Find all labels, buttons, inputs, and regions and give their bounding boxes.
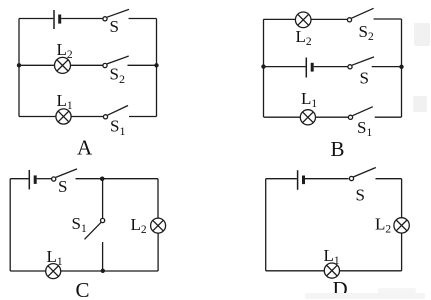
wire: B bottom branch left segment (264, 116, 301, 118)
wire: D top wire middle segment (305, 178, 349, 180)
svg-text:S: S (356, 186, 365, 205)
wire: B top branch middle segment (311, 18, 347, 20)
svg-text:L1: L1 (47, 247, 63, 268)
battery (cell) in A top branch (54, 10, 60, 29)
wire: C right rail lower segment (157, 233, 159, 271)
wire: B top branch left segment (264, 18, 296, 20)
wire: B middle branch right segment (372, 66, 402, 68)
svg-text:S2: S2 (359, 22, 374, 43)
wire: C bottom wire left segment (10, 270, 46, 272)
wire: A bottom branch right segment (129, 116, 157, 118)
faint watermark smudges (decorative) (305, 23, 430, 299)
wire: C top wire left segment (10, 178, 28, 180)
svg-text:C: C (76, 278, 90, 300)
wire: D bottom wire left segment (266, 270, 325, 272)
switch S1 (C middle branch, open vertical) (85, 218, 105, 239)
junction node (B right, middle branch) (399, 65, 403, 69)
wire: B left rail (263, 19, 265, 117)
wire: A top branch left segment (19, 18, 53, 20)
wire: C top wire middle segment (37, 178, 52, 180)
switch S (B middle branch) (348, 57, 374, 69)
wire: A bottom branch middle segment (71, 116, 103, 118)
lamp L1 (C bottom wire) (46, 264, 61, 279)
wire: D top wire left segment (266, 178, 297, 180)
svg-text:S: S (360, 69, 369, 88)
lamp L2 (C right branch) (151, 218, 166, 233)
wire: D bottom wire right segment (339, 270, 401, 272)
switch S2 (B top branch) (347, 8, 373, 22)
wire: A middle branch left segment (19, 64, 55, 66)
svg-text:L2: L2 (57, 40, 73, 61)
switch S (A top branch) (103, 9, 129, 21)
lamp L1 (D bottom wire) (324, 263, 339, 278)
battery (cell) in D top wire (298, 170, 304, 190)
junction node (A left, middle branch) (17, 63, 21, 67)
svg-text:L1: L1 (57, 91, 73, 112)
svg-text:L2: L2 (375, 215, 391, 236)
wire: A bottom branch left segment (19, 116, 56, 118)
wire: D right rail upper segment (401, 179, 403, 218)
wire: A right rail (156, 19, 158, 117)
lamp L2 (D right rail) (394, 218, 409, 233)
svg-text:L1: L1 (301, 89, 317, 110)
battery (cell) in B middle branch (306, 58, 312, 78)
wire: A left rail (18, 19, 20, 117)
wire: B right rail (401, 19, 403, 117)
svg-text:L2: L2 (296, 27, 312, 48)
svg-text:A: A (77, 136, 93, 160)
wire: A middle branch right segment (128, 64, 157, 66)
switch S1 (B bottom branch) (348, 107, 372, 120)
wire: C right rail upper segment (157, 179, 159, 219)
lamp L2 (B top branch) (295, 12, 311, 28)
svg-text:S: S (110, 17, 119, 36)
svg-text:L1: L1 (324, 246, 340, 267)
svg-text:L2: L2 (131, 215, 147, 236)
switch S1 (A bottom branch) (103, 106, 128, 119)
svg-text:B: B (331, 137, 345, 161)
wire: C middle branch lower vertical (102, 242, 104, 271)
svg-text:S1: S1 (110, 117, 125, 139)
svg-text:S1: S1 (357, 118, 372, 139)
lamp L1 (B bottom branch) (300, 110, 315, 125)
wire: C left rail (9, 179, 11, 271)
svg-text:S1: S1 (72, 214, 87, 235)
junction node (C bottom, middle branch tap) (101, 269, 105, 273)
wire: B bottom branch right segment (375, 116, 402, 118)
lamp L2 (A middle branch) (55, 57, 71, 73)
wire: B top branch right segment (374, 18, 402, 20)
wire: D right rail lower segment (401, 233, 403, 271)
wire: D top wire right segment (376, 178, 402, 180)
wire: C top wire right segment (76, 178, 159, 180)
switch S2 (A middle branch) (103, 56, 129, 68)
wire: D left rail (265, 179, 267, 271)
battery (cell) in C top wire (29, 170, 35, 189)
lamp L1 (A bottom branch) (56, 109, 71, 124)
wire: A top branch middle segment (61, 18, 103, 20)
switch S (D top wire) (349, 168, 375, 181)
wire: B middle branch left segment (264, 66, 306, 68)
junction node (B left, middle branch) (261, 64, 265, 68)
wire: B bottom branch middle segment (315, 116, 348, 118)
svg-text:S: S (58, 177, 67, 196)
wire: C bottom wire right segment (61, 270, 158, 272)
switch S (C top wire) (52, 169, 77, 181)
svg-text:S2: S2 (110, 65, 125, 87)
wire: B middle branch middle segment (314, 66, 348, 68)
junction node (A right, middle branch) (154, 63, 158, 67)
wire: A middle branch middle segment (71, 64, 103, 66)
junction node (C top, middle branch tap) (100, 177, 105, 182)
wire: C middle branch upper vertical (102, 179, 104, 219)
wire: A top branch right segment (129, 18, 157, 20)
